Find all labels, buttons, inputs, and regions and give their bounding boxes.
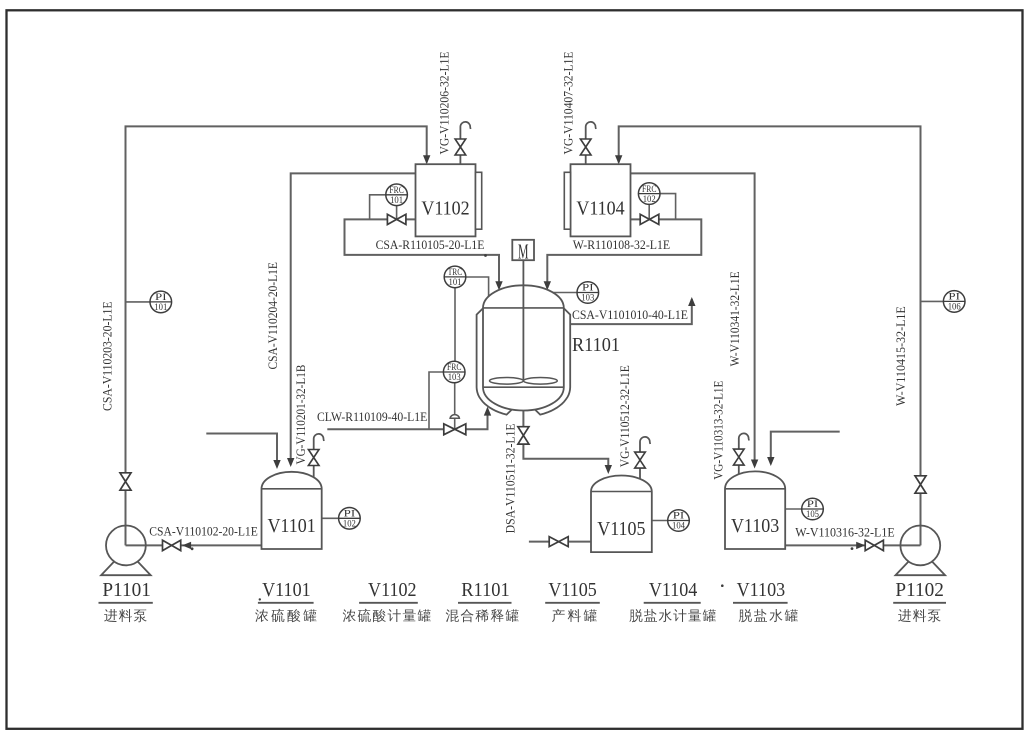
valve on reactor outlet xyxy=(518,427,529,444)
label V1102 浓硫酸计量罐 xyxy=(343,579,431,622)
svg-text:V1105: V1105 xyxy=(597,518,645,540)
svg-text:CSA-V110102-20-L1E: CSA-V110102-20-L1E xyxy=(149,525,258,539)
instrument TRC-101 xyxy=(444,266,466,288)
flow arrow xyxy=(856,542,865,549)
pump P1102 xyxy=(896,526,946,576)
svg-text:101: 101 xyxy=(154,302,167,312)
node dot before V1101 xyxy=(259,598,261,600)
svg-text:DSA-V110511-32-L1E: DSA-V110511-32-L1E xyxy=(504,423,518,533)
wire CSA-V1101010 product xyxy=(570,299,692,324)
svg-text:FRC: FRC xyxy=(642,184,657,194)
svg-text:V1102: V1102 xyxy=(421,197,469,219)
label P1101 进料泵 xyxy=(99,579,153,622)
svg-text:VG-V110206-32-L1E: VG-V110206-32-L1E xyxy=(438,51,452,154)
wire tap PI106 xyxy=(921,300,945,302)
label V1104 脱盐水计量罐 xyxy=(629,579,716,622)
svg-text:103: 103 xyxy=(581,293,594,303)
tank V1105 (product) xyxy=(591,476,652,553)
svg-text:TRC: TRC xyxy=(448,267,463,277)
svg-text:PI: PI xyxy=(582,283,594,293)
svg-text:CSA-V110204-20-L1E: CSA-V110204-20-L1E xyxy=(266,262,280,370)
svg-text:102: 102 xyxy=(643,194,656,204)
svg-text:103: 103 xyxy=(448,372,461,382)
svg-text:102: 102 xyxy=(343,519,356,529)
svg-text:V1102: V1102 xyxy=(368,579,417,601)
arrow into V1102 xyxy=(423,155,430,164)
label V1101 浓硫酸罐 xyxy=(255,579,316,622)
svg-text:104: 104 xyxy=(672,521,685,531)
wire W-R110108 V1104 to R1101 xyxy=(547,219,701,288)
wire signal FRC101 xyxy=(370,195,386,220)
svg-text:105: 105 xyxy=(806,509,819,519)
wire CSA-V110204 V1102 return to V1101 xyxy=(291,173,416,464)
instrument PI-102 xyxy=(339,508,361,530)
wire stem FRC101 valve xyxy=(396,205,398,220)
svg-text:CSA-V110203-20-L1E: CSA-V110203-20-L1E xyxy=(101,301,115,411)
svg-text:V1105: V1105 xyxy=(548,579,597,601)
wire tap PI105 xyxy=(785,508,803,510)
vent VG-V110512 on V1105 xyxy=(635,437,651,479)
arrow stub V1103 xyxy=(767,457,774,466)
vent VG-V110201 on V1101 xyxy=(308,434,324,477)
vent VG-V110407 on V1104 xyxy=(580,122,596,164)
instrument PI-106 xyxy=(943,291,965,313)
valve on V1105 drain xyxy=(549,537,568,547)
svg-text:P1101: P1101 xyxy=(102,579,151,601)
label P1102 进料泵 xyxy=(893,579,946,622)
wire stub into V1101 xyxy=(206,434,277,467)
arrow into R1101 right xyxy=(544,281,551,290)
valve on right feed riser xyxy=(915,476,926,493)
wire tap PI104 xyxy=(652,520,669,522)
svg-text:FRC: FRC xyxy=(447,362,462,372)
agitator blades xyxy=(490,378,524,385)
svg-text:V1103: V1103 xyxy=(731,515,779,537)
svg-text:W-V110341-32-L1E: W-V110341-32-L1E xyxy=(728,271,742,366)
svg-text:101: 101 xyxy=(390,195,403,205)
wire tap PI101 xyxy=(126,301,152,303)
control valve FRC101 xyxy=(387,214,406,224)
valve on V1101-P1101 line xyxy=(163,540,181,550)
tank V1102 (acid metering) xyxy=(416,164,482,236)
wire tap PI102 xyxy=(322,517,340,519)
instrument FRC-103 xyxy=(443,361,465,383)
control valve FRC102 xyxy=(640,214,659,224)
svg-text:PI: PI xyxy=(344,509,356,519)
arrow into V1101 xyxy=(287,458,294,467)
arrow into R1101 left xyxy=(495,281,502,290)
svg-text:PI: PI xyxy=(673,511,685,521)
svg-text:W-V110415-32-L1E: W-V110415-32-L1E xyxy=(894,306,908,406)
wire V1105 drain xyxy=(529,541,591,543)
vent VG-V110313 on V1103 xyxy=(734,433,750,474)
wire tap TRC101 xyxy=(465,277,489,308)
wire W-V110415 feed P1102 to V1104 xyxy=(619,126,921,545)
svg-text:P1102: P1102 xyxy=(895,579,944,601)
label V1103 脱盐水罐 xyxy=(733,579,798,622)
label V1105 产料罐 xyxy=(545,579,600,622)
svg-text:CSA-V1101010-40-L1E: CSA-V1101010-40-L1E xyxy=(572,308,688,322)
svg-text:R1101: R1101 xyxy=(461,579,510,601)
control valve CLW with actuator xyxy=(450,415,459,419)
wire DSA-V110511 R1101 to V1105 xyxy=(523,411,608,472)
wire signal FRC103 left xyxy=(429,372,445,429)
svg-text:FRC: FRC xyxy=(389,185,404,195)
node dot between V1104 and V1103 xyxy=(721,584,724,587)
wire stem FRC102 valve xyxy=(648,203,650,219)
svg-text:V1101: V1101 xyxy=(262,579,311,601)
svg-text:PI: PI xyxy=(948,292,960,302)
wire stub into V1103 xyxy=(771,432,840,464)
instrument FRC-101 xyxy=(386,184,408,206)
wire CSA-R110105 V1102 to R1101 xyxy=(345,219,500,288)
svg-text:CLW-R110109-40-L1E: CLW-R110109-40-L1E xyxy=(317,410,427,424)
instrument PI-105 xyxy=(802,498,824,520)
motor M box xyxy=(512,240,534,260)
tank V1103 (water) xyxy=(725,471,785,549)
arrow into V1104 xyxy=(615,155,622,164)
svg-text:PI: PI xyxy=(807,499,819,509)
wire CSA-V110102 V1101 to P1101 xyxy=(126,544,262,546)
svg-text:VG-V110313-32-L1E: VG-V110313-32-L1E xyxy=(711,380,725,479)
svg-text:VG-V110201-32-L1B: VG-V110201-32-L1B xyxy=(294,365,308,465)
wire stem FRC103 valve xyxy=(454,382,456,430)
svg-text:101: 101 xyxy=(449,277,462,287)
wire W-V110341 V1104 return to V1103 xyxy=(631,173,755,466)
reactor R1101 (mixing/dilution vessel) xyxy=(477,285,571,414)
wire CSA-V110203 feed P1101 to V1102 xyxy=(126,126,427,545)
svg-text:R1101: R1101 xyxy=(572,334,620,356)
svg-text:M: M xyxy=(518,239,529,263)
wire tap PI103 xyxy=(553,292,578,294)
valve on V1103-P1102 line xyxy=(865,540,883,550)
svg-text:V1103: V1103 xyxy=(737,579,786,601)
agitator shaft xyxy=(522,260,524,381)
wire W-V110316 V1103 to P1102 xyxy=(785,544,920,546)
tank V1101 (acid) xyxy=(262,472,322,549)
arrow into V1103 xyxy=(751,460,758,469)
instrument FRC-102 xyxy=(638,183,660,205)
svg-text:V1101: V1101 xyxy=(267,515,315,537)
arrow into V1105 xyxy=(605,465,612,474)
svg-text:W-V110316-32-L1E: W-V110316-32-L1E xyxy=(795,525,895,539)
wire CLW-R110109 to jacket xyxy=(327,409,487,430)
svg-text:V1104: V1104 xyxy=(576,197,624,219)
instrument PI-103 xyxy=(577,282,599,304)
valve on left feed riser xyxy=(120,473,131,490)
svg-text:W-R110108-32-L1E: W-R110108-32-L1E xyxy=(573,238,671,252)
tank V1104 (water metering) xyxy=(564,164,630,236)
wire TRC101 to FRC103 xyxy=(454,287,456,363)
label R1101 混合稀释罐 xyxy=(446,579,519,622)
arrow stub V1101 xyxy=(273,460,280,469)
svg-text:106: 106 xyxy=(948,302,961,312)
svg-text:PI: PI xyxy=(155,292,167,302)
pump P1101 xyxy=(101,526,151,576)
arrow into jacket xyxy=(484,407,491,416)
svg-text:VG-V110512-32-L1E: VG-V110512-32-L1E xyxy=(618,365,632,467)
instrument PI-104 xyxy=(668,510,690,532)
wire signal FRC102 xyxy=(659,194,676,220)
instrument PI-101 xyxy=(150,291,172,313)
flow arrow xyxy=(182,542,191,549)
svg-text:VG-V110407-32-L1E: VG-V110407-32-L1E xyxy=(561,51,575,154)
vent VG-V110206 on V1102 xyxy=(455,122,471,164)
svg-text:V1104: V1104 xyxy=(649,579,698,601)
svg-text:CSA-R110105-20-L1E: CSA-R110105-20-L1E xyxy=(376,238,485,252)
arrow product line up xyxy=(688,297,695,306)
